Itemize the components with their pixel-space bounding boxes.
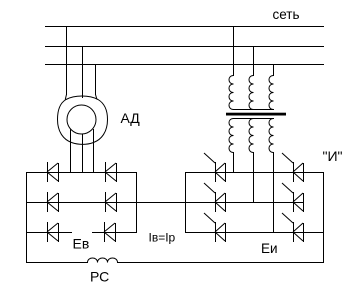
svg-text:сеть: сеть xyxy=(273,7,300,22)
svg-text:РС: РС xyxy=(90,269,109,285)
svg-text:Ев: Ев xyxy=(73,236,90,252)
svg-text:Еи: Еи xyxy=(261,241,278,256)
svg-text:АД: АД xyxy=(121,110,141,126)
svg-text:"И": "И" xyxy=(323,148,343,164)
svg-text:Iв=Iр: Iв=Iр xyxy=(149,231,176,245)
